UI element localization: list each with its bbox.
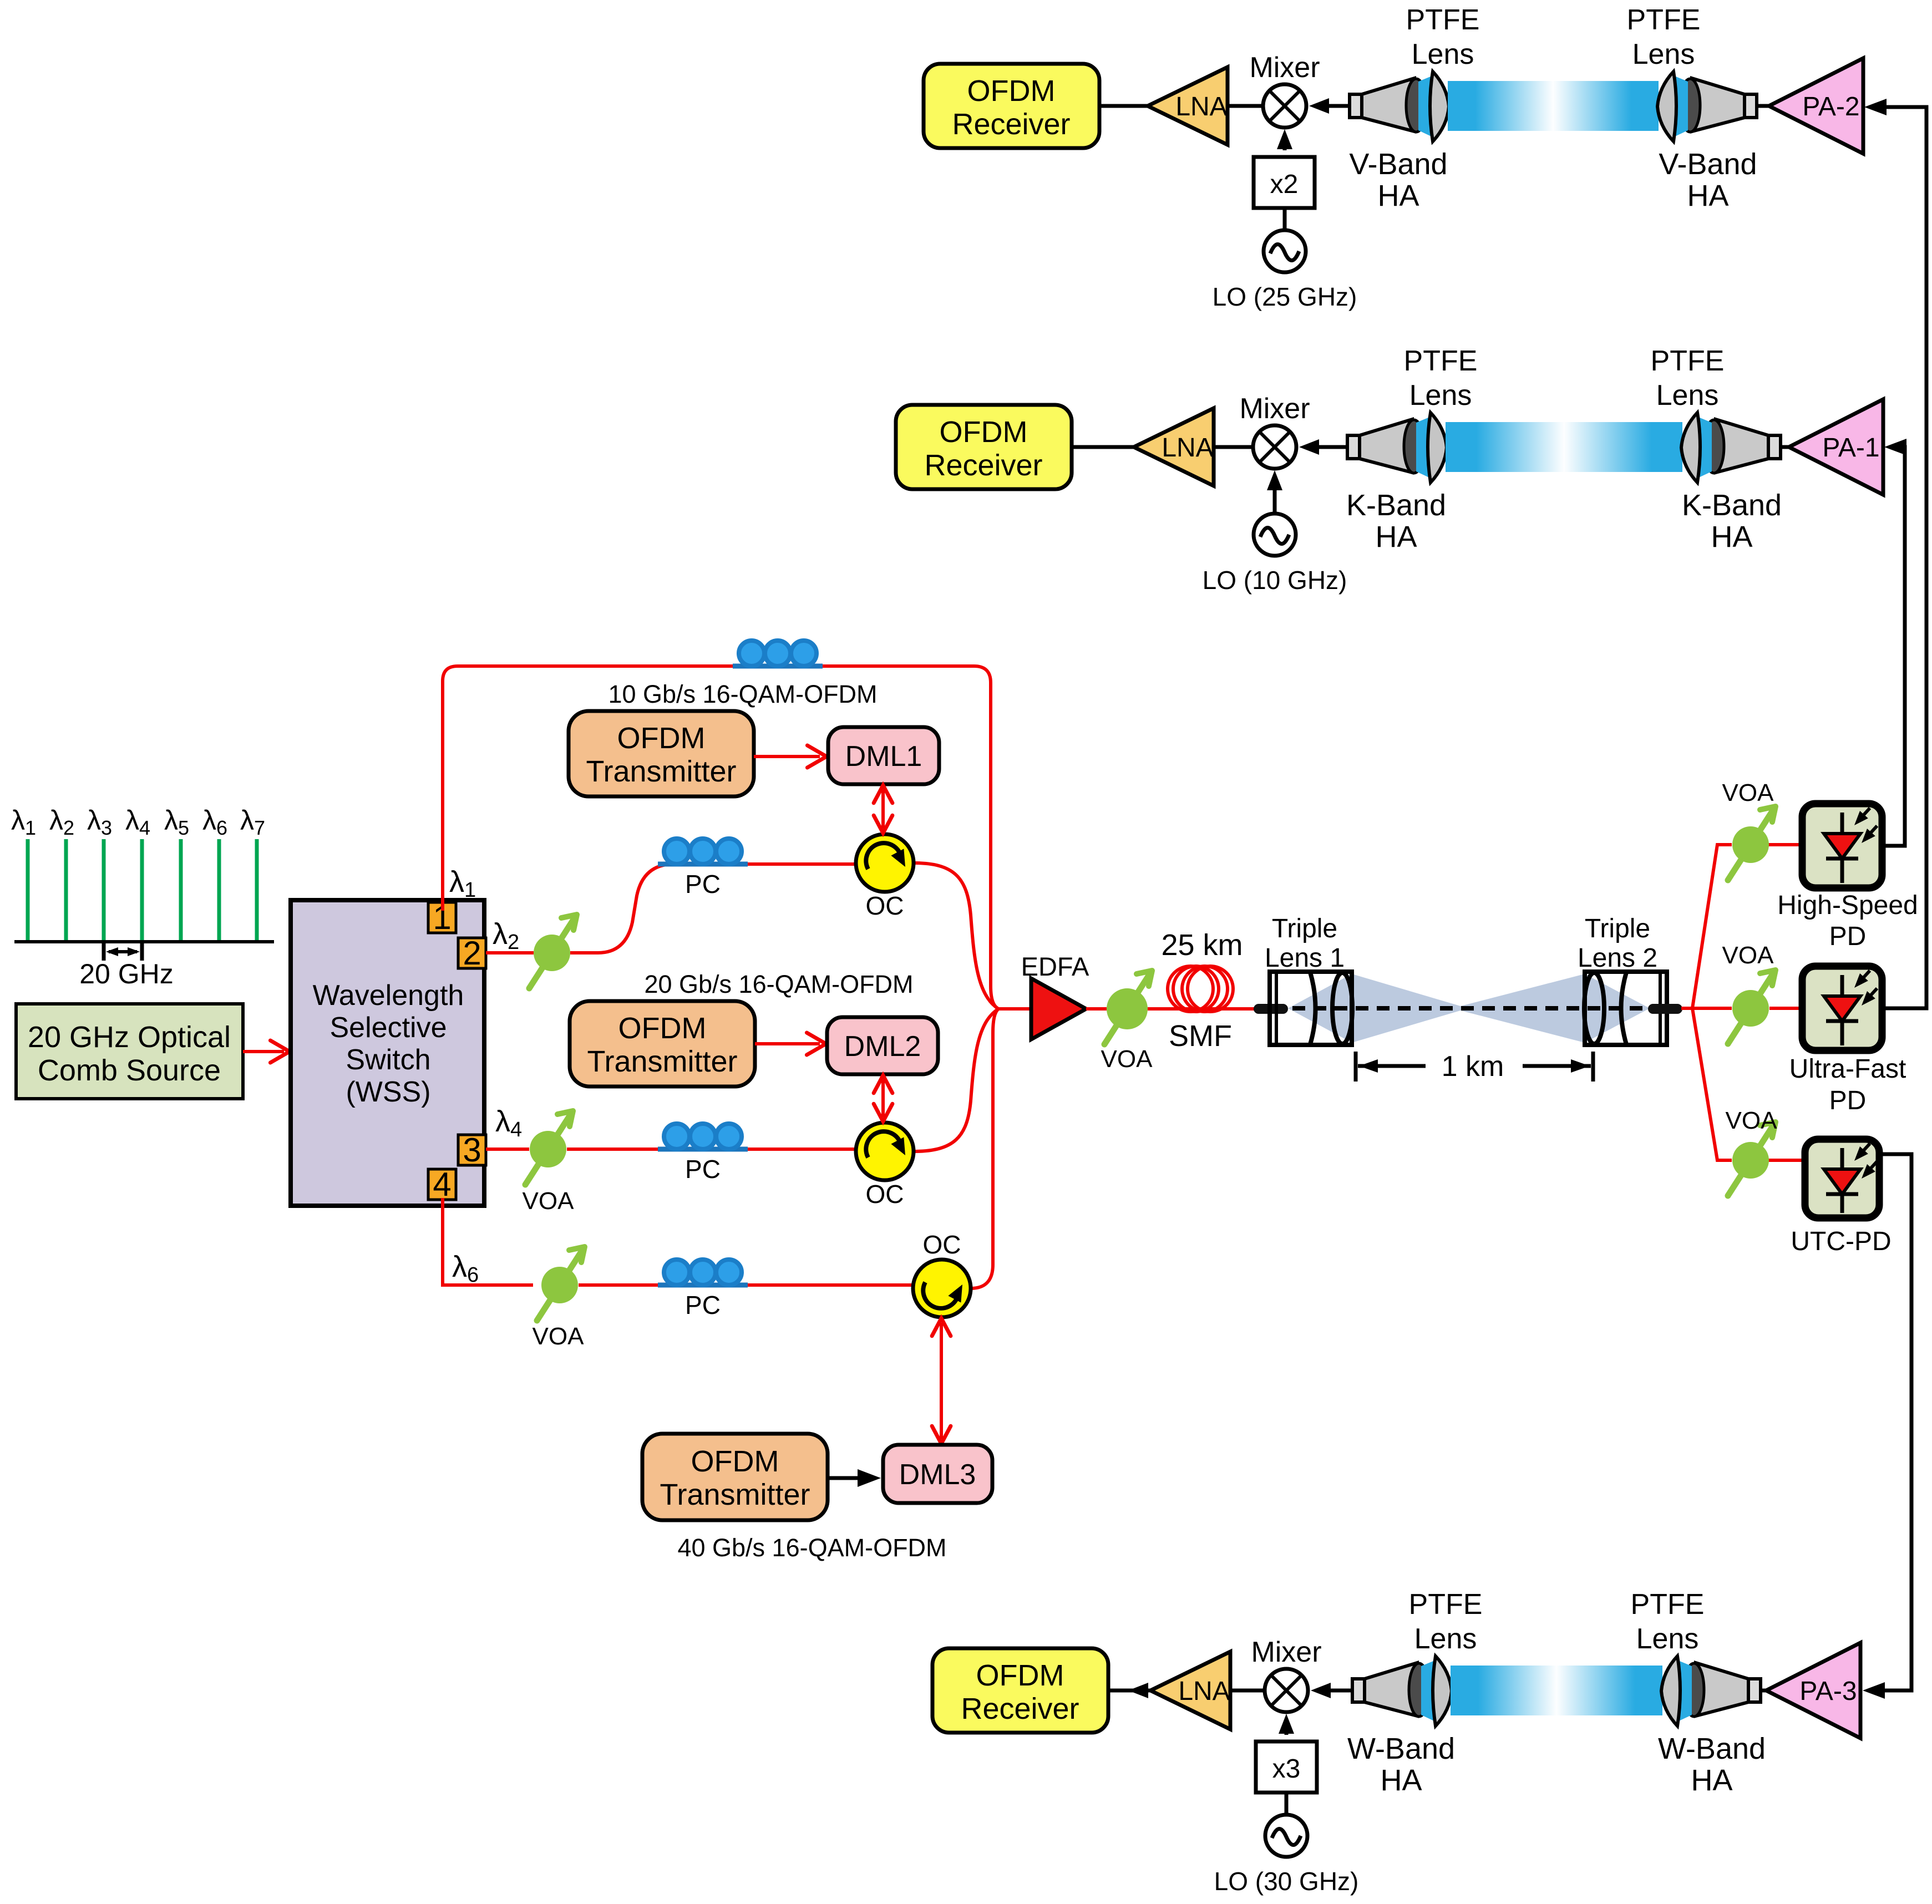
- horn antenna left (W-Band): [1352, 1656, 1452, 1726]
- svg-text:V-Band: V-Band: [1349, 148, 1447, 181]
- svg-text:V-Band: V-Band: [1659, 148, 1757, 181]
- beam (W-Band): [1451, 1666, 1662, 1715]
- svg-text:DML2: DML2: [844, 1030, 921, 1063]
- svg-text:2: 2: [463, 935, 481, 972]
- svg-text:K-Band: K-Band: [1682, 489, 1782, 522]
- svg-text:Triple: Triple: [1585, 914, 1650, 943]
- svg-text:W-Band: W-Band: [1658, 1732, 1766, 1765]
- fiber coil 25 km SMF: [1168, 966, 1233, 1012]
- OFDM Transmitter 2 box: [570, 1001, 755, 1086]
- attenuator VOA (High-Speed PD): [1728, 806, 1776, 880]
- wire LNA to OFDM Receiver (V-Band): [1099, 104, 1148, 108]
- svg-text:Wavelength: Wavelength: [313, 979, 464, 1012]
- wire transmitter3 to DML3 (black arrow): [828, 1469, 881, 1487]
- svg-text:DML3: DML3: [899, 1459, 976, 1491]
- svg-text:High-Speed: High-Speed: [1777, 891, 1918, 920]
- wire combiner to EDFA: [998, 1007, 1031, 1011]
- polarization controller PC1 (top rail): [733, 641, 823, 666]
- LO label (V-Band): [1213, 282, 1357, 311]
- svg-text:HA: HA: [1380, 1764, 1422, 1797]
- svg-text:PTFE: PTFE: [1651, 345, 1725, 377]
- V-Band HA label left: [1349, 148, 1447, 212]
- PC4 label: [685, 1291, 721, 1319]
- VOA label (UTC-PD): [1726, 1107, 1778, 1134]
- PTFE Lens label right (W-Band): [1631, 1588, 1705, 1655]
- wire LNA to mixer (W-Band): [1230, 1689, 1265, 1693]
- circulator OC2: [856, 1123, 914, 1180]
- amplifier PA-1 (K-Band): [1789, 399, 1883, 495]
- fiber tip 1: [1255, 1005, 1287, 1013]
- wire comb source to WSS (red arrow): [243, 1040, 290, 1063]
- wire DML1 to OC1 (double arrow): [874, 785, 893, 833]
- wire LNA to OFDM Receiver (W-Band): [1108, 1683, 1150, 1698]
- svg-text:K-Band: K-Band: [1346, 489, 1446, 522]
- wire OC2 to combiner: [914, 1009, 998, 1151]
- attenuator VOA (λ6): [537, 1247, 585, 1321]
- wire LO to mixer (K-Band): [1267, 470, 1282, 514]
- PTFE Lens label left (W-Band): [1409, 1588, 1483, 1655]
- polarization controller PC2: [658, 839, 748, 864]
- svg-text:HA: HA: [1687, 179, 1728, 212]
- fiber tip 2: [1649, 1005, 1681, 1013]
- wire DML2 to OC2 (double arrow): [874, 1075, 893, 1121]
- label 10 Gb/s 16-QAM-OFDM: [608, 680, 877, 708]
- svg-text:OFDM: OFDM: [617, 722, 706, 755]
- wire λ2 (port2 via VOA and PC to OC1): [486, 864, 856, 953]
- PC3 label: [685, 1155, 721, 1184]
- attenuator VOA (after EDFA): [1104, 971, 1152, 1044]
- laser DML3 box: [883, 1445, 992, 1503]
- svg-text:Triple: Triple: [1272, 914, 1337, 943]
- svg-text:(WSS): (WSS): [346, 1076, 430, 1108]
- svg-text:Ultra-Fast: Ultra-Fast: [1789, 1054, 1906, 1084]
- svg-text:OFDM: OFDM: [940, 415, 1028, 449]
- UTC-PD label: [1791, 1227, 1891, 1256]
- wire horn to PA-3 (W-Band): [1761, 1689, 1766, 1693]
- svg-text:3: 3: [463, 1131, 481, 1169]
- photodiode UTC-PD: [1805, 1139, 1879, 1218]
- collimator Triple Lens 2: [1584, 972, 1667, 1045]
- amplifier LNA (K-Band): [1134, 408, 1214, 486]
- svg-text:PA-2: PA-2: [1802, 92, 1859, 121]
- svg-text:HA: HA: [1711, 520, 1752, 554]
- Mixer label (K-Band): [1239, 393, 1310, 425]
- amplifier LNA (W-Band): [1150, 1652, 1230, 1729]
- svg-text:Lens: Lens: [1636, 1623, 1699, 1655]
- Wavelength Selective Switch (WSS) box: [291, 900, 484, 1206]
- svg-text:OFDM: OFDM: [967, 74, 1056, 108]
- svg-text:OC: OC: [923, 1230, 961, 1259]
- WSS port 3: [458, 1131, 486, 1169]
- wire branch to Ultra-Fast PD: [1692, 1007, 1802, 1010]
- svg-text:Lens: Lens: [1412, 38, 1474, 70]
- photodiode Ultra-Fast PD: [1802, 966, 1882, 1050]
- svg-text:SMF: SMF: [1169, 1019, 1232, 1053]
- svg-text:HA: HA: [1375, 520, 1417, 554]
- horn antenna right (W-Band): [1661, 1656, 1761, 1726]
- svg-text:LO (30 GHz): LO (30 GHz): [1214, 1867, 1359, 1896]
- PTFE Lens label right (V-Band): [1627, 4, 1701, 70]
- WSS port 4: [428, 1166, 456, 1203]
- VOA label (after EDFA): [1101, 1045, 1153, 1073]
- wire transmitter1 to DML1 (red arrow): [754, 745, 826, 768]
- wire x2 to mixer (V-Band): [1277, 129, 1292, 150]
- High-Speed PD label: [1777, 891, 1918, 951]
- svg-text:LO (25 GHz): LO (25 GHz): [1213, 282, 1357, 311]
- amplifier PA-2 (V-Band): [1769, 58, 1863, 154]
- attenuator VOA (UTC-PD): [1728, 1122, 1776, 1196]
- optical comb spectrum lines λ1-λ7: [28, 839, 257, 942]
- wire λ1 (port1 to combiner, top rail): [443, 666, 998, 1009]
- wire x3 to mixer (W-Band): [1279, 1714, 1294, 1735]
- optical axis (dashed): [1292, 1006, 1650, 1011]
- mixer (K-Band): [1253, 425, 1296, 469]
- svg-text:VOA: VOA: [533, 1323, 585, 1350]
- node λ6 label: [452, 1250, 479, 1287]
- wire LNA to mixer (V-Band): [1228, 104, 1263, 108]
- oscillator LO (W-Band): [1265, 1815, 1307, 1857]
- svg-text:OFDM: OFDM: [976, 1659, 1064, 1692]
- horn antenna left (K-Band): [1347, 413, 1447, 483]
- Mixer label (W-Band): [1251, 1636, 1321, 1668]
- svg-text:UTC-PD: UTC-PD: [1791, 1227, 1891, 1256]
- K-Band HA label right: [1682, 489, 1782, 554]
- W-Band HA label left: [1347, 1732, 1455, 1797]
- svg-text:20 Gb/s 16-QAM-OFDM: 20 Gb/s 16-QAM-OFDM: [644, 970, 913, 998]
- circulator OC3: [913, 1260, 971, 1317]
- amplifier PA-3 (W-Band): [1766, 1643, 1860, 1738]
- svg-text:PTFE: PTFE: [1409, 1588, 1483, 1621]
- wire horn to mixer (K-Band): [1299, 439, 1347, 455]
- svg-text:PC: PC: [685, 1155, 721, 1184]
- svg-text:x2: x2: [1270, 170, 1299, 199]
- 20 GHz Optical Comb Source box: [16, 1004, 243, 1099]
- PTFE Lens label left (K-Band): [1404, 345, 1478, 412]
- horn antenna right (K-Band): [1681, 413, 1781, 483]
- comb spectrum baseline: [14, 940, 274, 943]
- attenuator VOA (λ4): [525, 1111, 573, 1185]
- circulator OC1: [856, 834, 914, 892]
- wire transmitter2 to DML2 (red arrow): [755, 1033, 826, 1055]
- PTFE Lens label right (K-Band): [1651, 345, 1725, 412]
- svg-text:LNA: LNA: [1175, 92, 1227, 121]
- wire LNA to OFDM Receiver (K-Band): [1072, 445, 1134, 449]
- amplifier EDFA: [1031, 978, 1086, 1039]
- polarization controller PC3: [658, 1124, 748, 1149]
- svg-text:PA-3: PA-3: [1799, 1677, 1857, 1706]
- svg-text:LNA: LNA: [1162, 433, 1213, 463]
- svg-text:Lens: Lens: [1409, 379, 1472, 412]
- 20 GHz spacing arrow: [104, 942, 142, 961]
- svg-text:OC: OC: [866, 1180, 904, 1209]
- wire λ6 (port4 via VOA and PC to OC3): [443, 1198, 912, 1285]
- label 40 Gb/s 16-QAM-OFDM: [677, 1534, 946, 1562]
- svg-text:VOA: VOA: [1722, 942, 1774, 969]
- wire horn to mixer (V-Band): [1309, 98, 1350, 114]
- svg-text:VOA: VOA: [1726, 1107, 1778, 1134]
- laser DML2 box: [827, 1017, 938, 1074]
- svg-text:25 km: 25 km: [1161, 928, 1243, 962]
- svg-text:PA-1: PA-1: [1822, 433, 1879, 463]
- svg-text:LO (10 GHz): LO (10 GHz): [1203, 566, 1347, 595]
- Ultra-Fast PD label: [1789, 1054, 1906, 1115]
- polarization controller PC4: [658, 1260, 748, 1285]
- wire OC3 to combiner: [971, 1009, 998, 1288]
- svg-text:Transmitter: Transmitter: [587, 1045, 737, 1078]
- svg-text:PD: PD: [1829, 922, 1867, 951]
- svg-text:x3: x3: [1272, 1754, 1301, 1784]
- wire UTC-PD to PA-3: [1863, 1154, 1911, 1699]
- multiplier x2 (V-Band): [1254, 157, 1315, 208]
- VOA label (High-Speed PD): [1722, 779, 1774, 806]
- svg-text:PTFE: PTFE: [1404, 345, 1478, 377]
- svg-text:Mixer: Mixer: [1249, 52, 1320, 84]
- OFDM Transmitter 3 box: [642, 1434, 828, 1520]
- svg-text:Receiver: Receiver: [952, 108, 1070, 141]
- node λ4 label: [495, 1105, 522, 1141]
- wire horn to PA-1 (K-Band): [1781, 445, 1789, 449]
- svg-text:PC: PC: [685, 870, 721, 898]
- Triple Lens 2 label: [1578, 914, 1657, 973]
- svg-text:OFDM: OFDM: [618, 1012, 707, 1045]
- EDFA label: [1021, 952, 1089, 981]
- svg-text:W-Band: W-Band: [1347, 1732, 1455, 1765]
- node λ2 label: [493, 917, 519, 954]
- svg-text:4: 4: [433, 1166, 451, 1203]
- horn antenna right (V-Band): [1657, 72, 1757, 141]
- OC1 label: [866, 891, 904, 920]
- wire branch to High-Speed PD: [1681, 845, 1804, 1008]
- wire LNA to mixer (K-Band): [1214, 445, 1253, 449]
- svg-text:HA: HA: [1691, 1764, 1732, 1797]
- VOA label (Ultra-Fast PD): [1722, 942, 1774, 969]
- svg-text:Lens: Lens: [1656, 379, 1719, 412]
- Mixer label (V-Band): [1249, 52, 1320, 84]
- svg-text:EDFA: EDFA: [1021, 952, 1089, 981]
- VOA label (λ4): [523, 1187, 575, 1215]
- Triple Lens 1 label: [1265, 914, 1345, 973]
- svg-text:Selective: Selective: [330, 1012, 447, 1044]
- attenuator VOA (λ2): [529, 915, 577, 988]
- 20 GHz spacing label: [79, 958, 174, 989]
- laser DML1 box: [828, 727, 939, 784]
- 1 km label: [1442, 1050, 1504, 1083]
- svg-text:Mixer: Mixer: [1239, 393, 1310, 425]
- svg-text:Transmitter: Transmitter: [586, 755, 736, 788]
- oscillator LO (K-Band): [1254, 514, 1296, 556]
- comb line labels: [11, 805, 265, 839]
- wire branch to UTC-PD: [1692, 1008, 1807, 1160]
- mixer (W-Band): [1265, 1669, 1308, 1712]
- wire LO to x3 (W-Band): [1285, 1793, 1289, 1815]
- wire EDFA to VOA: [1086, 1007, 1107, 1011]
- wire OC3 to DML3 (double arrow): [932, 1318, 951, 1444]
- WSS port 2: [458, 935, 486, 972]
- beam (V-Band): [1448, 81, 1659, 131]
- OC2 label: [866, 1180, 904, 1209]
- svg-text:PC: PC: [685, 1291, 721, 1319]
- svg-text:VOA: VOA: [1722, 779, 1774, 806]
- svg-text:40 Gb/s 16-QAM-OFDM: 40 Gb/s 16-QAM-OFDM: [677, 1534, 946, 1562]
- OFDM Receiver (K-Band row): [896, 405, 1072, 489]
- label 20 Gb/s 16-QAM-OFDM: [644, 970, 913, 998]
- node λ1 label: [449, 865, 476, 902]
- photodiode High-Speed PD: [1802, 804, 1882, 888]
- svg-text:Comb Source: Comb Source: [38, 1054, 221, 1087]
- light beam between triple lenses: [1288, 974, 1650, 1043]
- wire LO to x2 (V-Band): [1283, 208, 1287, 230]
- LO label (K-Band): [1203, 566, 1347, 595]
- svg-text:PTFE: PTFE: [1631, 1588, 1705, 1621]
- svg-text:20 GHz: 20 GHz: [79, 958, 174, 989]
- svg-text:Transmitter: Transmitter: [660, 1478, 810, 1511]
- multiplier x3 (W-Band): [1256, 1741, 1317, 1793]
- svg-text:VOA: VOA: [1101, 1045, 1153, 1073]
- horn antenna left (V-Band): [1350, 72, 1449, 141]
- svg-text:OFDM: OFDM: [691, 1445, 779, 1478]
- 25 km label: [1161, 928, 1243, 962]
- PC2 label: [685, 870, 721, 898]
- attenuator VOA (Ultra-Fast PD): [1728, 970, 1776, 1044]
- 1 km dimension arrows: [1356, 1052, 1593, 1082]
- svg-text:Mixer: Mixer: [1251, 1636, 1321, 1668]
- mixer (V-Band): [1263, 84, 1306, 128]
- svg-text:LNA: LNA: [1178, 1677, 1230, 1706]
- oscillator LO (V-Band): [1264, 230, 1306, 272]
- wire horn to mixer (W-Band): [1311, 1683, 1352, 1698]
- svg-text:DML1: DML1: [845, 740, 922, 773]
- OC3 label: [923, 1230, 961, 1259]
- svg-text:HA: HA: [1377, 179, 1419, 212]
- LO label (W-Band): [1214, 1867, 1359, 1896]
- svg-text:Receiver: Receiver: [924, 449, 1042, 482]
- svg-text:1 km: 1 km: [1442, 1050, 1504, 1083]
- wire OC1 to combiner: [914, 863, 998, 1009]
- wire High-Speed PD to PA-1: [1882, 439, 1906, 846]
- svg-text:PTFE: PTFE: [1627, 4, 1701, 36]
- OFDM Receiver (W-Band row): [932, 1648, 1108, 1733]
- svg-text:Lens 1: Lens 1: [1265, 943, 1345, 973]
- wire horn to PA-2 (V-Band): [1757, 104, 1769, 108]
- svg-text:Receiver: Receiver: [961, 1692, 1079, 1725]
- amplifier LNA (V-Band): [1148, 67, 1228, 145]
- svg-text:10 Gb/s 16-QAM-OFDM: 10 Gb/s 16-QAM-OFDM: [608, 680, 877, 708]
- PTFE Lens label left (V-Band): [1406, 4, 1480, 70]
- wire λ4 (port3 via VOA and PC to OC2): [486, 1148, 856, 1151]
- svg-text:Lens 2: Lens 2: [1578, 943, 1657, 973]
- V-Band HA label right: [1659, 148, 1757, 212]
- wire Ultra-Fast PD to PA-2: [1864, 99, 1926, 1008]
- svg-text:PTFE: PTFE: [1406, 4, 1480, 36]
- collimator Triple Lens 1: [1270, 972, 1352, 1045]
- svg-text:Lens: Lens: [1632, 38, 1695, 70]
- wire VOA to fiber connector: [1148, 1007, 1255, 1011]
- W-Band HA label right: [1658, 1732, 1766, 1797]
- svg-text:VOA: VOA: [523, 1187, 575, 1215]
- beam (K-Band): [1446, 422, 1682, 472]
- svg-text:20 GHz Optical: 20 GHz Optical: [28, 1020, 231, 1054]
- SMF label: [1169, 1019, 1232, 1053]
- OFDM Transmitter 1 box: [569, 711, 754, 796]
- K-Band HA label left: [1346, 489, 1446, 554]
- VOA label (λ6): [533, 1323, 585, 1350]
- svg-text:Lens: Lens: [1414, 1623, 1477, 1655]
- svg-text:PD: PD: [1829, 1086, 1867, 1115]
- svg-text:Switch: Switch: [346, 1044, 430, 1076]
- WSS port 1: [428, 899, 456, 936]
- OFDM Receiver (V-Band row): [924, 64, 1099, 148]
- svg-text:OC: OC: [866, 891, 904, 920]
